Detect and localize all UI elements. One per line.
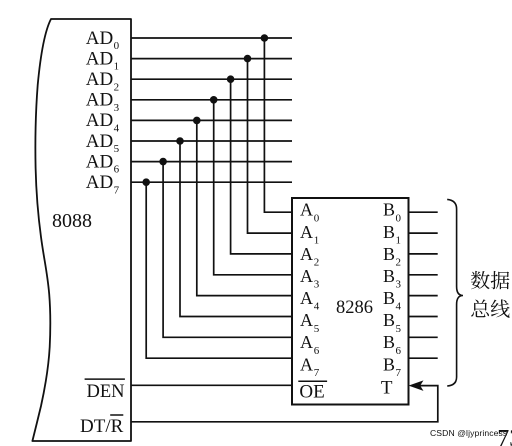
svg-text:2: 2 (396, 257, 402, 269)
svg-text:4: 4 (114, 123, 120, 135)
svg-text:A: A (300, 222, 313, 242)
label 数据总线 (data bus) (471, 271, 510, 318)
svg-text:3: 3 (396, 279, 402, 291)
svg-text:0: 0 (314, 212, 320, 224)
wire B4 stub (409, 295, 438, 297)
svg-text:B: B (383, 222, 395, 242)
wire B6 stub (409, 336, 438, 338)
wire AD1 drop to A1 (248, 59, 293, 234)
svg-text:3: 3 (114, 102, 120, 114)
svg-text:AD: AD (86, 151, 113, 172)
junction dot AD3 (210, 96, 218, 104)
wire AD2 drop to A2 (231, 79, 292, 254)
wire AD5 horizontal from 8088 (131, 140, 292, 142)
wire DEN from 8088 to OE (131, 384, 292, 386)
svg-text:B: B (383, 200, 395, 220)
svg-text:2: 2 (314, 257, 320, 269)
svg-text:1: 1 (114, 61, 120, 73)
svg-text:A: A (300, 266, 313, 286)
svg-text:A: A (300, 288, 313, 308)
svg-text:7: 7 (314, 367, 320, 379)
svg-text:8088: 8088 (52, 210, 92, 232)
arrowhead into T (410, 381, 422, 390)
svg-text:T: T (381, 378, 393, 399)
svg-text:8286: 8286 (336, 298, 373, 318)
svg-text:B: B (383, 354, 395, 374)
svg-text:OE: OE (299, 381, 324, 402)
svg-text:B: B (383, 244, 395, 264)
junction dot AD2 (227, 75, 235, 83)
junction dot AD1 (244, 55, 252, 63)
junction dot AD7 (142, 178, 150, 186)
wire AD2 horizontal from 8088 (131, 78, 292, 80)
svg-text:CSDN @ljyprincess: CSDN @ljyprincess (430, 428, 507, 438)
brace data bus (right) (447, 199, 463, 386)
svg-text:AD: AD (86, 90, 113, 111)
svg-text:DT/R: DT/R (80, 416, 124, 437)
svg-text:A: A (300, 200, 313, 220)
wire AD4 horizontal from 8088 (131, 119, 292, 121)
junction dot AD5 (176, 137, 184, 145)
wire AD0 horizontal from 8088 (131, 37, 292, 39)
overline of DEN (85, 378, 125, 380)
svg-text:7: 7 (114, 184, 120, 196)
svg-text:5: 5 (314, 323, 320, 335)
svg-text:1: 1 (314, 234, 320, 246)
svg-text:B: B (383, 332, 395, 352)
junction dot AD6 (159, 158, 167, 166)
wire AD7 horizontal from 8088 (131, 181, 292, 183)
wire B7 stub (409, 357, 438, 359)
svg-text:AD: AD (86, 48, 113, 69)
svg-text:DEN: DEN (87, 382, 125, 402)
transceiver 8286 body (292, 198, 409, 405)
wire DT/R to T pin (131, 386, 438, 422)
overline of OE (298, 380, 327, 382)
svg-text:1: 1 (396, 234, 402, 246)
overline of R in DT/R (110, 414, 123, 416)
svg-text:AD: AD (86, 131, 113, 152)
svg-text:7: 7 (396, 367, 402, 379)
svg-text:B: B (383, 288, 395, 308)
wire AD6 horizontal from 8088 (131, 161, 292, 163)
wire AD1 horizontal from 8088 (131, 58, 292, 60)
wire AD6 drop to A6 (163, 162, 292, 338)
svg-text:0: 0 (396, 212, 402, 224)
svg-text:B: B (383, 266, 395, 286)
svg-text:6: 6 (114, 164, 120, 176)
wire B0 stub (409, 211, 438, 213)
svg-text:A: A (300, 354, 313, 374)
wire AD3 horizontal from 8088 (131, 99, 292, 101)
svg-text:6: 6 (314, 345, 320, 357)
svg-text:AD: AD (86, 28, 113, 49)
svg-text:A: A (300, 244, 313, 264)
svg-text:5: 5 (396, 323, 402, 335)
svg-text:A: A (300, 332, 313, 352)
svg-text:73: 73 (497, 426, 512, 446)
svg-text:B: B (383, 310, 395, 330)
wire B1 stub (409, 232, 438, 234)
wire B5 stub (409, 316, 438, 318)
junction dot AD4 (193, 117, 201, 125)
svg-text:5: 5 (114, 143, 120, 155)
svg-text:AD: AD (86, 69, 113, 90)
wire B2 stub (409, 253, 438, 255)
svg-text:4: 4 (396, 301, 402, 313)
wire AD5 drop to A5 (180, 141, 292, 317)
wire AD7 drop to A7 (146, 182, 292, 358)
wire AD4 drop to A4 (197, 120, 292, 295)
svg-text:6: 6 (396, 345, 402, 357)
svg-text:AD: AD (86, 110, 113, 131)
svg-text:A: A (300, 310, 313, 330)
svg-text:4: 4 (314, 301, 320, 313)
svg-text:AD: AD (86, 172, 113, 193)
svg-text:0: 0 (114, 40, 120, 52)
svg-text:2: 2 (114, 81, 120, 93)
svg-text:3: 3 (314, 279, 320, 291)
junction dot AD0 (261, 34, 269, 42)
wire AD3 drop to A3 (214, 100, 292, 275)
wire B3 stub (409, 274, 438, 276)
CPU 8088 body (torn-edge outline) (32, 19, 131, 441)
wire AD0 drop to A0 (264, 38, 292, 212)
